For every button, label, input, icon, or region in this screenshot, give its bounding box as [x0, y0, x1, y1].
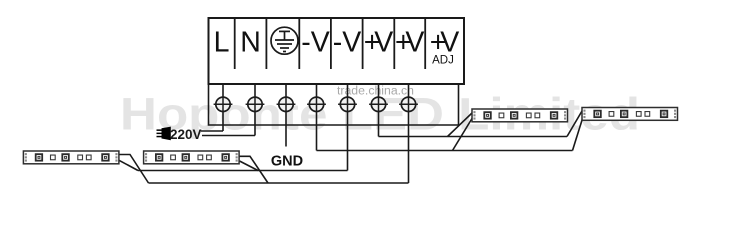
wire screw5 -V down	[347, 84, 349, 171]
wire screw3 earth down to GND	[285, 84, 287, 147]
LED strip D	[582, 108, 678, 121]
terminal labels	[214, 27, 460, 59]
bus -V left (y170)	[138, 170, 348, 172]
earth symbol	[271, 27, 298, 54]
svg-text:N: N	[240, 27, 261, 59]
wire strip B top	[240, 156, 269, 183]
wire screw2 N down	[254, 84, 256, 136]
wire strip A top	[119, 155, 149, 184]
plug icon	[157, 127, 171, 141]
svg-text:-V: -V	[301, 27, 330, 59]
bus +V right (y136)	[379, 136, 568, 138]
svg-text:-V: -V	[333, 27, 362, 59]
screw terminal stems and wires	[223, 84, 409, 183]
screw terminals	[214, 97, 233, 111]
wire strip C top	[448, 113, 473, 137]
LED strip B	[144, 151, 240, 164]
bus +V left (y183)	[149, 182, 409, 184]
svg-text:+V: +V	[364, 27, 394, 59]
wire strip C bottom	[453, 119, 473, 151]
wire L to 220V	[201, 130, 223, 132]
wire screw7 +V down	[408, 84, 410, 183]
svg-text:L: L	[214, 27, 230, 59]
LED strip C	[472, 109, 568, 122]
bus -V right (y150)	[317, 150, 573, 152]
wire N to 220V	[202, 135, 255, 137]
svg-text:220V: 220V	[170, 127, 202, 142]
wire strip D bottom	[573, 117, 584, 151]
LED strip A	[23, 151, 119, 164]
wire strip B bottom	[240, 161, 259, 171]
terminal cell dividers	[235, 18, 426, 69]
case outline below terminals	[209, 84, 459, 125]
terminal block box	[209, 18, 465, 84]
wire screw1 L down	[222, 84, 224, 131]
svg-text:+V: +V	[395, 27, 425, 59]
svg-text:ADJ: ADJ	[432, 55, 454, 67]
svg-text:trade.china.cn: trade.china.cn	[337, 86, 414, 98]
svg-text:GND: GND	[271, 154, 303, 170]
wire screw4 -V down	[316, 84, 318, 151]
wire strip A bottom	[119, 160, 138, 170]
wire screw6 +V down	[378, 84, 380, 137]
wire strip D top	[567, 111, 582, 137]
